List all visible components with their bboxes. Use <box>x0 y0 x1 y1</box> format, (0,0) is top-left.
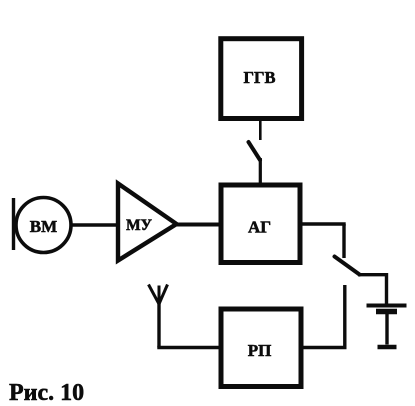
svg-text:АГ: АГ <box>248 218 271 237</box>
switch SA1 lever <box>249 142 261 160</box>
microphone BM circle <box>16 198 71 253</box>
svg-text:ВМ: ВМ <box>30 217 57 236</box>
antenna WA mast <box>157 302 160 348</box>
block RP box <box>221 309 301 387</box>
battery GB short plate <box>376 309 397 314</box>
antenna prong left <box>149 285 160 305</box>
wire switch to AG <box>259 158 262 185</box>
wire AG right horizontal <box>300 222 346 226</box>
battery bottom terminal dash <box>378 345 397 349</box>
battery GB long plate <box>367 304 407 308</box>
svg-text:РП: РП <box>248 341 272 360</box>
svg-text:МУ: МУ <box>126 217 153 234</box>
block AG box <box>221 185 300 263</box>
antenna prong middle <box>158 286 161 305</box>
block GGV box <box>221 39 302 119</box>
wire MU to AG <box>173 223 221 227</box>
svg-text:ГГВ: ГГВ <box>243 68 275 87</box>
amplifier MU triangle <box>118 184 177 261</box>
svg-text:Рис. 10: Рис. 10 <box>9 380 84 406</box>
wire down to battery plus <box>385 273 388 304</box>
wire up to switch SA2 lower contact <box>343 285 346 348</box>
wire BM to MU <box>71 223 119 227</box>
switch SA2 lever <box>335 257 360 275</box>
wire GGV to switch contact <box>259 121 262 140</box>
wire lever to battery horizontal <box>358 273 387 276</box>
wire down to switch SA2 upper contact <box>342 224 345 258</box>
antenna prong right <box>159 285 168 305</box>
wire antenna to RP <box>157 346 221 350</box>
wire RP right horizontal <box>301 346 347 350</box>
wire battery minus down <box>385 313 388 345</box>
microphone BM baffle bar <box>12 198 15 250</box>
